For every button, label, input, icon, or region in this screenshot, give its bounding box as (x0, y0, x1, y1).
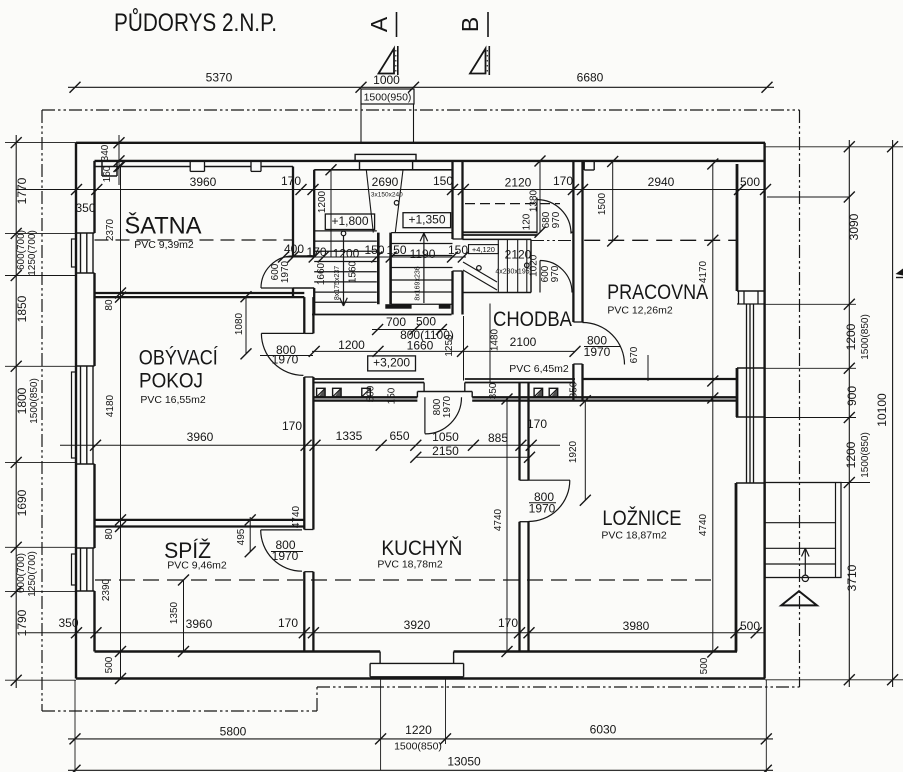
svg-text:350: 350 (488, 382, 499, 399)
svg-text:1970: 1970 (272, 353, 299, 367)
svg-text:1660: 1660 (316, 262, 327, 285)
svg-text:3960: 3960 (186, 617, 213, 631)
svg-text:500: 500 (740, 619, 760, 633)
svg-text:600(700): 600(700) (16, 553, 27, 593)
svg-text:1335: 1335 (336, 429, 363, 443)
svg-text:1800: 1800 (15, 387, 29, 414)
svg-text:1500(850): 1500(850) (860, 432, 871, 478)
svg-text:4x230x195: 4x230x195 (495, 269, 529, 276)
svg-text:500: 500 (366, 385, 377, 402)
svg-text:1560: 1560 (348, 260, 359, 283)
svg-text:PVC 6,45m2: PVC 6,45m2 (509, 363, 569, 375)
svg-text:2690: 2690 (372, 175, 399, 189)
svg-text:1660: 1660 (407, 339, 434, 353)
svg-text:500: 500 (740, 175, 760, 189)
svg-text:1970: 1970 (280, 260, 291, 283)
svg-text:1970: 1970 (584, 345, 611, 359)
svg-text:170: 170 (306, 245, 326, 259)
svg-text:PŮDORYS 2.N.P.: PŮDORYS 2.N.P. (114, 6, 277, 37)
svg-text:4170: 4170 (698, 260, 709, 283)
svg-text:1770: 1770 (15, 177, 29, 204)
svg-text:80: 80 (104, 528, 115, 540)
svg-text:1020: 1020 (529, 254, 540, 277)
svg-text:1200: 1200 (338, 338, 365, 352)
svg-text:1200: 1200 (317, 190, 328, 213)
svg-text:1250: 1250 (444, 334, 455, 357)
svg-text:900: 900 (845, 386, 859, 406)
svg-text:13050: 13050 (447, 755, 481, 769)
svg-text:500: 500 (699, 657, 710, 674)
svg-text:4180: 4180 (105, 394, 116, 417)
svg-text:1190: 1190 (410, 247, 436, 261)
svg-text:5370: 5370 (206, 71, 233, 85)
svg-text:+3,200: +3,200 (373, 356, 410, 370)
svg-text:4740: 4740 (291, 505, 302, 528)
svg-text:170: 170 (281, 174, 301, 188)
svg-text:350: 350 (569, 381, 580, 398)
svg-text:350: 350 (75, 201, 95, 215)
svg-text:1080: 1080 (234, 312, 245, 335)
svg-text:670: 670 (629, 346, 640, 363)
svg-text:400: 400 (284, 242, 304, 256)
svg-text:PVC 9,46m2: PVC 9,46m2 (167, 560, 227, 572)
svg-text:1500(850): 1500(850) (860, 314, 871, 360)
svg-text:LOŽNICE: LOŽNICE (602, 507, 681, 530)
svg-text:500: 500 (104, 656, 115, 673)
svg-text:350: 350 (58, 616, 78, 630)
svg-text:170: 170 (527, 417, 547, 431)
svg-text:2150: 2150 (432, 444, 459, 458)
svg-text:1000: 1000 (373, 73, 400, 87)
svg-text:1380: 1380 (529, 189, 540, 212)
svg-text:150: 150 (387, 387, 398, 404)
svg-text:10100: 10100 (875, 393, 889, 427)
svg-text:PVC 18,78m2: PVC 18,78m2 (377, 559, 443, 571)
svg-text:PRACOVNA: PRACOVNA (607, 281, 708, 304)
svg-text:700: 700 (386, 315, 406, 329)
svg-text:4740: 4740 (698, 513, 709, 536)
svg-text:150: 150 (364, 243, 384, 257)
svg-text:1250(700): 1250(700) (27, 551, 38, 597)
svg-text:3960: 3960 (187, 430, 214, 444)
svg-text:1220: 1220 (405, 723, 432, 737)
svg-text:120: 120 (522, 213, 533, 230)
svg-text:1500(950): 1500(950) (364, 92, 412, 104)
svg-text:ŠATNA: ŠATNA (125, 212, 202, 240)
svg-text:2120: 2120 (505, 176, 532, 190)
svg-text:1200: 1200 (844, 441, 858, 468)
svg-text:8x175x237: 8x175x237 (334, 266, 341, 300)
svg-text:1050: 1050 (432, 430, 459, 444)
svg-text:1690: 1690 (15, 489, 29, 516)
svg-text:PVC 12,26m2: PVC 12,26m2 (607, 305, 673, 317)
svg-text:1850: 1850 (15, 295, 29, 322)
svg-text:8x169x236: 8x169x236 (415, 266, 422, 300)
svg-text:PVC 18,87m2: PVC 18,87m2 (601, 530, 667, 542)
svg-text:3960: 3960 (190, 175, 217, 189)
svg-text:1200: 1200 (333, 247, 360, 261)
svg-text:80: 80 (104, 299, 115, 311)
svg-text:KUCHYŇ: KUCHYŇ (381, 537, 462, 560)
svg-text:1500(850): 1500(850) (394, 741, 442, 753)
svg-text:1200: 1200 (844, 323, 858, 350)
svg-text:3710: 3710 (845, 564, 859, 591)
svg-text:3980: 3980 (623, 619, 650, 633)
svg-text:1790: 1790 (15, 609, 29, 636)
svg-text:PVC 16,55m2: PVC 16,55m2 (140, 394, 206, 406)
svg-text:5800: 5800 (220, 725, 247, 739)
svg-text:3x150x240: 3x150x240 (371, 192, 403, 199)
svg-text:PVC 9,39m2: PVC 9,39m2 (134, 239, 194, 251)
svg-text:2940: 2940 (648, 175, 675, 189)
svg-text:340: 340 (100, 144, 111, 161)
svg-text:1970: 1970 (529, 502, 556, 516)
svg-text:+1,350: +1,350 (408, 213, 445, 227)
svg-text:160: 160 (102, 165, 113, 182)
svg-text:+1,800: +1,800 (331, 214, 368, 228)
svg-text:2390: 2390 (101, 578, 112, 601)
svg-text:6030: 6030 (590, 723, 617, 737)
svg-text:POKOJ: POKOJ (139, 370, 203, 393)
svg-text:970: 970 (550, 265, 561, 282)
svg-text:150: 150 (433, 174, 453, 188)
svg-text:6680: 6680 (577, 71, 604, 85)
svg-text:2100: 2100 (510, 335, 537, 349)
svg-text:600(700): 600(700) (16, 230, 27, 270)
svg-text:1350: 1350 (169, 601, 180, 624)
svg-text:OBÝVACÍ: OBÝVACÍ (139, 347, 218, 370)
svg-text:1920: 1920 (568, 440, 579, 463)
svg-text:1970: 1970 (442, 395, 453, 418)
svg-text:1480: 1480 (490, 328, 501, 351)
svg-text:4740: 4740 (493, 508, 504, 531)
svg-text:B: B (457, 17, 483, 32)
svg-text:+4,120: +4,120 (472, 245, 495, 254)
svg-text:500: 500 (416, 315, 436, 329)
svg-text:495: 495 (236, 528, 247, 545)
svg-text:650: 650 (389, 429, 409, 443)
svg-text:3090: 3090 (847, 213, 861, 240)
svg-text:170: 170 (498, 616, 518, 630)
svg-text:170: 170 (553, 174, 573, 188)
svg-text:3920: 3920 (404, 618, 431, 632)
svg-text:1250(700): 1250(700) (27, 230, 38, 276)
svg-text:1500(850): 1500(850) (29, 378, 40, 424)
svg-text:1500: 1500 (597, 192, 608, 215)
svg-text:170: 170 (282, 419, 302, 433)
svg-text:2370: 2370 (105, 218, 116, 241)
svg-text:170: 170 (278, 616, 298, 630)
svg-text:970: 970 (551, 211, 562, 228)
svg-text:CHODBA: CHODBA (493, 308, 572, 331)
svg-text:885: 885 (488, 431, 508, 445)
svg-text:A: A (366, 16, 392, 32)
